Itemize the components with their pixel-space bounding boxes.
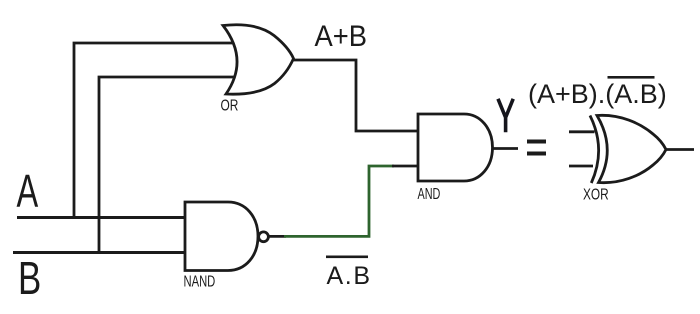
svg-text:A: A [17,165,39,217]
svg-text:AND: AND [417,185,440,202]
overline over A.B [326,256,368,259]
svg-text:A+B: A+B [315,20,367,53]
overline over (A.B [608,76,655,79]
or-gate U1 [223,25,294,94]
and-gate U3 [418,114,493,181]
svg-text:B: B [18,252,41,304]
svg-text:NAND: NAND [184,273,216,290]
svg-text:A.B: A.B [327,262,372,290]
nand-gate U2 [185,202,258,271]
wire AND output Y [493,147,519,150]
wire B branch up to OR bottom input [99,77,234,253]
svg-text:(A+B).(A.B): (A+B).(A.B) [528,79,667,109]
nand-gate U2 output bubble [259,232,269,242]
wire NAND output black stub [267,235,286,238]
wire A branch up to OR top input [74,43,236,218]
label Y [498,99,513,133]
wire OR output to AND top input (net A+B) [292,60,420,131]
xor-gate U4 body [597,115,666,182]
wire B horizontal (input B to NAND bottom input) [13,251,187,254]
wire NAND output green (net NOT(A.B)) [284,166,394,236]
svg-text:XOR: XOR [583,186,609,203]
xor-gate U4 extra back curve [590,116,599,184]
xor-gate U4 input stubs [569,132,595,166]
svg-text:OR: OR [221,96,239,114]
wire AND bottom input stub [392,165,420,168]
equals sign [527,140,546,144]
wire XOR output [666,148,694,151]
wire A horizontal (input A to NAND top input) [17,216,187,219]
